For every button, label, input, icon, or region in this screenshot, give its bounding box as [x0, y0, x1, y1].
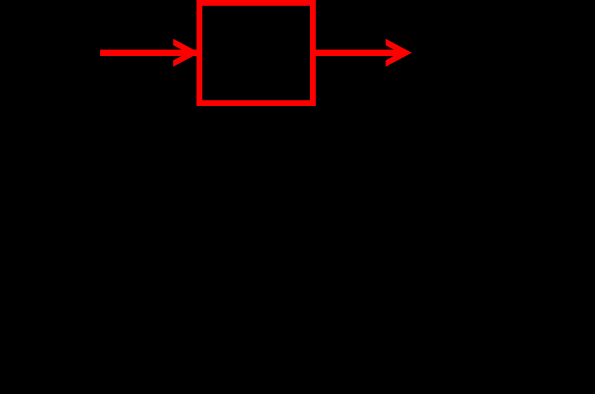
input arrow shaft	[100, 50, 197, 56]
output arrow shaft	[310, 50, 406, 56]
block (system box)	[199, 3, 313, 103]
output arrowhead	[386, 39, 412, 67]
input arrowhead	[173, 39, 199, 67]
